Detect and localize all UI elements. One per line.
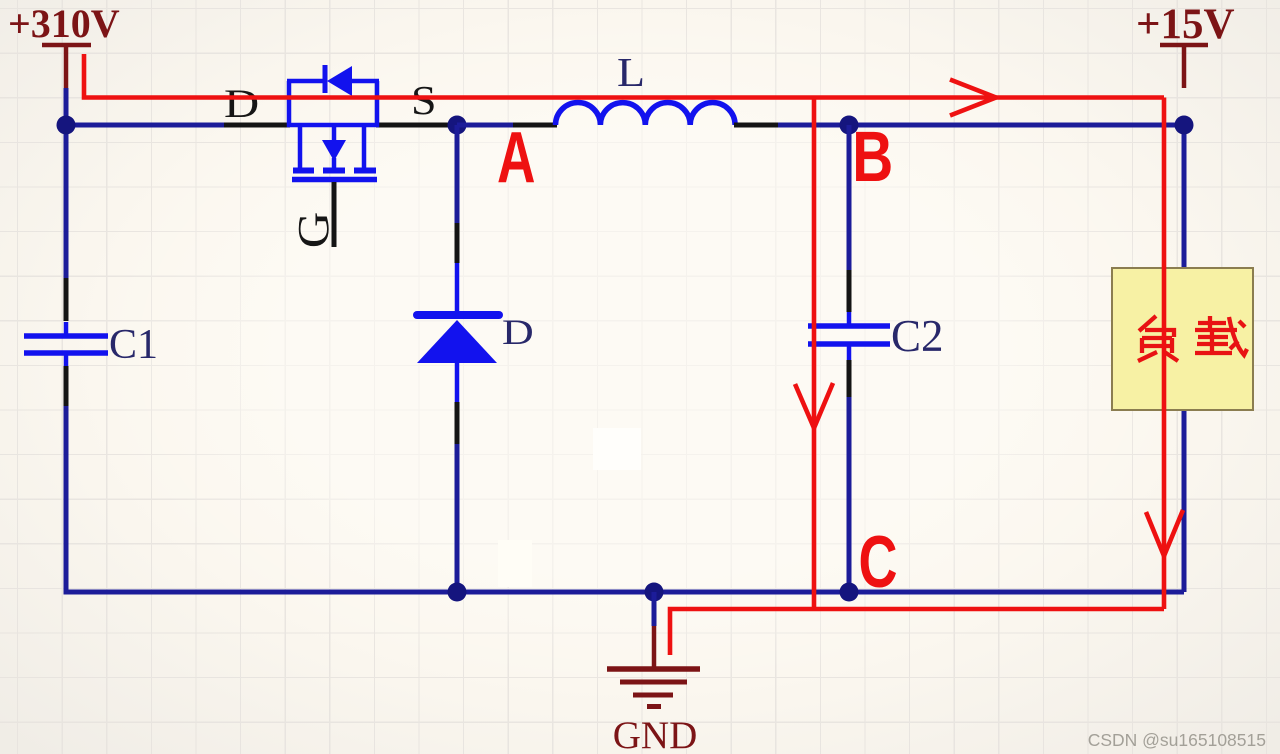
power symbol +310V (8, 1, 120, 88)
node (66,125) (57, 116, 76, 135)
red wire: branch at B down (812, 98, 817, 610)
载 (1198, 321, 1226, 325)
wire: C2 to node C navy (847, 397, 852, 592)
svg-text:C1: C1 (109, 322, 158, 368)
load text 负载 strokes (1138, 316, 1247, 361)
body diode bar (323, 65, 328, 93)
wire: diode to bottom rail navy (455, 444, 460, 592)
MOSFET arrow (322, 140, 346, 161)
red arrow right (950, 80, 996, 116)
load box (1112, 268, 1253, 410)
pin lead D black (224, 123, 290, 128)
capacitor C2 (808, 312, 890, 360)
ground (607, 626, 700, 707)
svg-text:S: S (411, 78, 437, 123)
node at (457,592) (448, 583, 467, 602)
svg-text:D: D (224, 81, 259, 126)
wire: D rail navy (66, 123, 224, 128)
node at (1184,125) (1175, 116, 1194, 135)
负 (1139, 316, 1156, 331)
white patch 2 (498, 540, 532, 587)
wire: right rail navy (under load) (1182, 125, 1187, 592)
svg-text:B: B (852, 117, 893, 197)
pin lead C2 top black (847, 270, 852, 312)
gate channel stubs (298, 125, 303, 169)
red wire: right drop through load (1162, 98, 1167, 610)
body diode triangle (327, 66, 352, 96)
wire: left vertical navy upper (64, 125, 69, 278)
gate plate (292, 177, 377, 183)
channel bars (293, 168, 314, 174)
svg-text:CSDN @su165108515: CSDN @su165108515 (1088, 730, 1266, 750)
power symbol +15V (1136, 1, 1235, 88)
node C dot (840, 583, 859, 602)
wire: node B down navy (847, 125, 852, 270)
svg-text:C2: C2 (891, 311, 944, 361)
pin lead C1 top black (64, 278, 69, 321)
svg-text:L: L (617, 50, 645, 95)
pin lead inductor left black (513, 123, 557, 128)
pin lead diode top black (455, 223, 460, 263)
wire: +310V to node (64, 88, 69, 128)
svg-text:C: C (859, 521, 898, 603)
pin lead C2 bottom black (847, 360, 852, 397)
svg-text:+15V: +15V (1136, 1, 1235, 48)
red arrow down right (1146, 510, 1183, 556)
capacitor C1 (24, 322, 108, 366)
svg-text:G: G (290, 212, 338, 249)
transistor Q1 MOSFET body (287, 65, 379, 180)
node A dot (448, 116, 467, 135)
node at (654,592) (645, 583, 664, 602)
inductor L (556, 103, 736, 125)
red wire: +310V branch (84, 54, 1164, 98)
pin lead diode bottom black (455, 402, 460, 444)
wire: bottom rail navy (66, 406, 1184, 592)
red wire: bottom return (670, 609, 1164, 655)
diode D (417, 263, 499, 402)
wire: A to inductor navy (457, 123, 513, 128)
svg-text:GND: GND (613, 714, 698, 754)
svg-text:+310V: +310V (8, 1, 120, 46)
wire: node A down navy (455, 125, 460, 223)
svg-text:A: A (497, 118, 535, 198)
pin lead C1 bottom black (64, 366, 69, 406)
pin lead S black (376, 123, 458, 128)
pin lead inductor right black (734, 123, 778, 128)
gate lead black (332, 182, 337, 247)
wire: gnd stub navy (652, 592, 657, 626)
svg-text:D: D (502, 312, 534, 352)
red arrow down mid (795, 383, 833, 428)
node B dot (840, 116, 859, 135)
white patch 1 (593, 428, 641, 470)
wire: inductor to node B navy (778, 123, 1184, 128)
